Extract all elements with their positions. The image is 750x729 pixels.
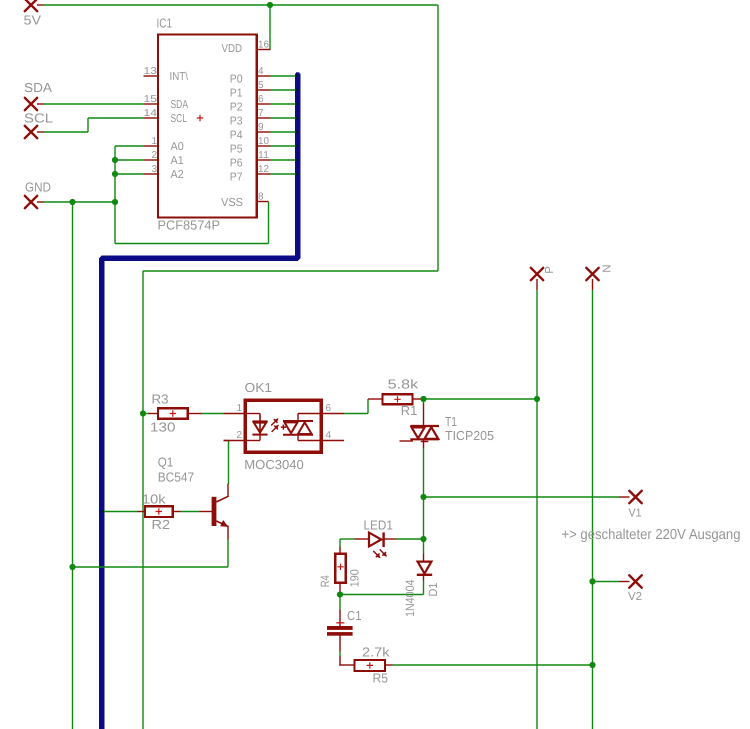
svg-text:SCL: SCL: [24, 111, 53, 126]
svg-text:15: 15: [144, 94, 158, 105]
svg-text:P6: P6: [230, 157, 243, 169]
svg-text:OK1: OK1: [245, 380, 273, 395]
svg-text:7: 7: [258, 108, 264, 119]
svg-text:R2: R2: [152, 517, 171, 532]
svg-text:R5: R5: [373, 670, 389, 685]
svg-text:1: 1: [151, 136, 157, 147]
svg-text:P4: P4: [230, 129, 243, 141]
svg-text:BC547: BC547: [158, 469, 195, 484]
svg-text:V1: V1: [629, 507, 642, 519]
svg-text:GND: GND: [25, 180, 51, 195]
svg-text:3: 3: [151, 164, 157, 175]
svg-text:9: 9: [258, 122, 264, 133]
svg-text:VDD: VDD: [222, 43, 243, 55]
svg-text:12: 12: [258, 164, 269, 175]
svg-text:P1: P1: [230, 87, 243, 99]
svg-text:11: 11: [258, 150, 269, 161]
svg-text:N: N: [602, 264, 614, 272]
svg-text:A0: A0: [171, 141, 184, 153]
svg-text:+> geschalteter 220V Ausgang: +> geschalteter 220V Ausgang: [562, 527, 741, 543]
svg-text:LED1: LED1: [364, 518, 394, 533]
svg-text:R4: R4: [318, 575, 332, 587]
svg-text:5V: 5V: [24, 13, 42, 28]
svg-text:P3: P3: [230, 115, 243, 127]
svg-text:SDA: SDA: [24, 80, 52, 95]
svg-text:A2: A2: [171, 169, 184, 181]
svg-text:PCF8574P: PCF8574P: [158, 218, 221, 233]
svg-text:P5: P5: [230, 143, 243, 155]
svg-text:A1: A1: [171, 155, 184, 167]
svg-text:16: 16: [258, 39, 269, 50]
svg-text:SDA: SDA: [171, 99, 189, 111]
svg-text:D1: D1: [426, 582, 440, 596]
svg-text:2: 2: [236, 430, 242, 441]
svg-text:5.8k: 5.8k: [388, 377, 419, 392]
svg-text:SCL: SCL: [171, 113, 188, 125]
svg-text:14: 14: [144, 108, 158, 119]
svg-text:T1: T1: [445, 414, 457, 429]
svg-text:4: 4: [258, 66, 264, 77]
svg-text:4: 4: [326, 430, 332, 441]
svg-text:2.7k: 2.7k: [362, 645, 390, 660]
svg-text:MOC3040: MOC3040: [244, 457, 303, 472]
svg-text:13: 13: [144, 66, 158, 77]
svg-text:C1: C1: [347, 608, 362, 623]
svg-text:1: 1: [236, 403, 242, 414]
svg-text:6: 6: [258, 94, 264, 105]
svg-text:2: 2: [151, 150, 157, 161]
svg-text:IC1: IC1: [157, 16, 173, 31]
svg-text:VSS: VSS: [221, 197, 243, 209]
svg-text:10: 10: [258, 136, 269, 147]
svg-text:130: 130: [150, 419, 176, 434]
svg-text:P2: P2: [230, 101, 243, 113]
svg-text:6: 6: [326, 403, 332, 414]
svg-text:P0: P0: [230, 73, 243, 85]
svg-text:10k: 10k: [142, 492, 166, 507]
svg-text:R3: R3: [152, 392, 169, 407]
svg-text:190: 190: [348, 569, 362, 587]
svg-text:8: 8: [258, 191, 264, 202]
svg-text:V2: V2: [628, 591, 642, 603]
svg-text:INT\: INT\: [170, 71, 189, 83]
svg-text:P: P: [544, 266, 556, 274]
svg-text:R1: R1: [401, 403, 418, 418]
svg-text:TICP205: TICP205: [445, 428, 494, 443]
svg-text:5: 5: [258, 80, 264, 91]
svg-text:Q1: Q1: [158, 454, 174, 469]
svg-text:P7: P7: [230, 171, 243, 183]
svg-text:1N4004: 1N4004: [403, 579, 417, 617]
